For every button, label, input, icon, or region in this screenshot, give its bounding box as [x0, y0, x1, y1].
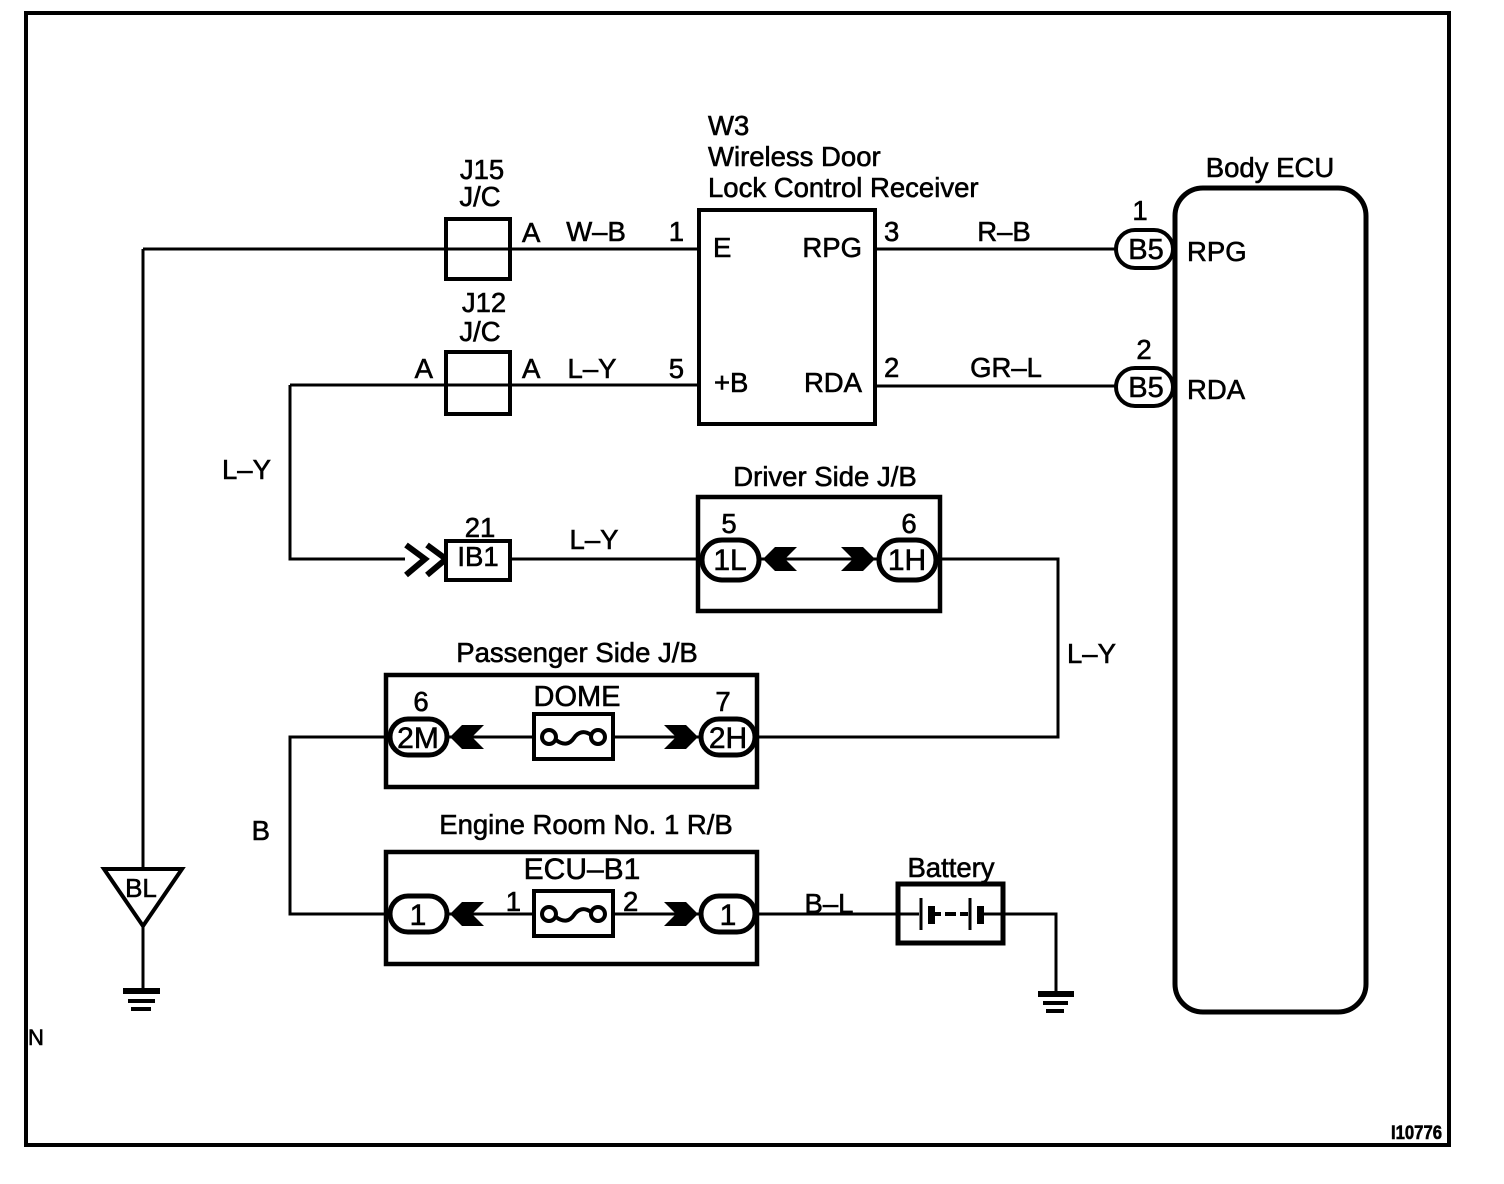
svg-text:1: 1 [410, 899, 427, 932]
connector IB1 [446, 541, 510, 580]
svg-text:21: 21 [465, 512, 496, 543]
Engine Room No.1 R/B box [386, 852, 757, 964]
svg-text:6: 6 [901, 508, 916, 539]
svg-text:1: 1 [669, 216, 684, 247]
svg-text:5: 5 [669, 353, 684, 384]
svg-text:IB1: IB1 [457, 541, 498, 572]
svg-text:L–Y: L–Y [222, 454, 271, 485]
svg-text:W3: W3 [708, 110, 749, 141]
svg-text:J12: J12 [462, 287, 506, 318]
wire GR-L from W3 pin 2 to B5 [875, 385, 1116, 388]
svg-text:+B: +B [714, 367, 748, 398]
svg-text:2: 2 [1136, 334, 1151, 365]
svg-text:2: 2 [623, 886, 638, 917]
svg-text:2: 2 [884, 352, 899, 383]
wire L-Y vertical down to IB1 row [290, 385, 405, 559]
svg-text:Engine Room No. 1 R/B: Engine Room No. 1 R/B [439, 809, 732, 840]
svg-text:Passenger Side J/B: Passenger Side J/B [456, 637, 698, 668]
receiver W3 box [699, 210, 875, 424]
svg-text:J/C: J/C [459, 316, 500, 347]
wire 1H to passenger 2H [757, 559, 1058, 737]
svg-text:6: 6 [413, 686, 428, 717]
svg-text:J/C: J/C [459, 181, 500, 212]
svg-text:1H: 1H [888, 544, 926, 577]
svg-text:A: A [522, 217, 541, 248]
svg-text:B: B [252, 815, 270, 846]
svg-text:RDA: RDA [1187, 374, 1246, 405]
svg-text:DOME: DOME [534, 681, 621, 713]
svg-text:L–Y: L–Y [570, 524, 619, 555]
wire L-Y from corner to W3 pin +B [290, 384, 699, 387]
battery cell symbols [898, 913, 919, 916]
Driver Side J/B box [698, 497, 940, 611]
svg-text:E: E [713, 232, 731, 263]
svg-text:2M: 2M [397, 722, 439, 755]
wire battery to ground [1003, 914, 1056, 991]
svg-text:5: 5 [721, 508, 736, 539]
arrow right passenger [664, 725, 698, 749]
arrow left driver [763, 547, 797, 571]
connector 1L [702, 540, 759, 580]
svg-text:7: 7 [715, 686, 730, 717]
svg-text:3: 3 [884, 216, 899, 247]
fuse DOME [534, 714, 613, 759]
svg-text:R–B: R–B [977, 216, 1031, 247]
Body ECU box [1175, 188, 1366, 1012]
svg-text:Wireless Door: Wireless Door [708, 141, 881, 172]
Passenger Side J/B box [386, 675, 757, 787]
svg-text:A: A [522, 353, 541, 384]
wire IB1 to 1L [512, 558, 702, 561]
connector 1 right [701, 896, 755, 932]
connector B5 pin 1 [1116, 230, 1173, 268]
junction connector J15 [446, 219, 510, 279]
svg-text:2H: 2H [709, 722, 747, 755]
svg-text:B–L: B–L [805, 888, 854, 919]
connector 1 left [390, 896, 447, 932]
splice BL triangle [104, 869, 182, 926]
wire 2M left down to engine row [290, 737, 388, 914]
svg-text:ECU–B1: ECU–B1 [524, 853, 641, 886]
svg-text:A: A [415, 353, 434, 384]
svg-text:W–B: W–B [566, 216, 626, 247]
svg-text:Lock Control Receiver: Lock Control Receiver [708, 172, 979, 203]
arrow left engine [450, 902, 484, 926]
connector 2M [390, 719, 447, 755]
svg-text:B5: B5 [1128, 234, 1163, 266]
connector 2H [701, 719, 755, 755]
connector 1H [879, 540, 936, 580]
svg-text:1L: 1L [713, 544, 746, 577]
svg-text:1: 1 [506, 886, 521, 917]
junction connector J12 [446, 352, 510, 414]
svg-text:GR–L: GR–L [970, 352, 1042, 383]
svg-text:RPG: RPG [1187, 236, 1247, 267]
ground under BL [123, 988, 160, 994]
wire inside engine box [449, 913, 700, 916]
wire left vertical to BL [142, 249, 145, 869]
fuse ECU-B1 [534, 891, 613, 936]
connector B5 pin 2 [1116, 368, 1173, 406]
svg-text:Battery: Battery [907, 852, 994, 883]
svg-text:L–Y: L–Y [1067, 638, 1116, 669]
arrow left passenger [450, 725, 484, 749]
svg-text:N: N [28, 1025, 44, 1050]
svg-text:L–Y: L–Y [568, 353, 617, 384]
svg-text:1: 1 [720, 899, 737, 932]
wire between driver arrows [761, 558, 877, 561]
svg-text:BL: BL [125, 873, 157, 903]
chevrons into IB1 [406, 545, 446, 575]
svg-text:I10776: I10776 [1391, 1123, 1442, 1144]
wire BL apex to ground [142, 926, 145, 991]
battery [898, 884, 1003, 943]
svg-text:Body ECU: Body ECU [1206, 152, 1334, 183]
wire engine right oval to battery [757, 913, 898, 916]
svg-text:B5: B5 [1128, 372, 1163, 404]
arrow right engine [664, 902, 698, 926]
arrow right driver [841, 547, 875, 571]
wire inside passenger box [449, 736, 700, 739]
svg-text:RDA: RDA [804, 367, 863, 398]
svg-text:Driver Side J/B: Driver Side J/B [733, 461, 916, 492]
wire W-B from node to W3 pin E [143, 248, 699, 251]
wire R-B from W3 pin 3 to B5 [875, 248, 1116, 251]
svg-text:1: 1 [1132, 195, 1147, 226]
ground under battery [1038, 991, 1074, 997]
svg-text:RPG: RPG [802, 232, 862, 263]
